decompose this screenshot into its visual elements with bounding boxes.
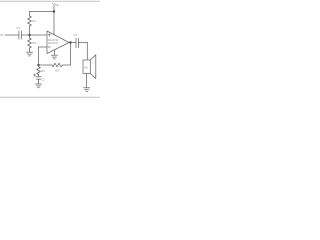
- junction feedback node: [37, 64, 39, 66]
- wire speaker bottom lead: [86, 74, 88, 88]
- node IN label: [0, 33, 3, 37]
- resistor R1: [28, 16, 32, 26]
- svg-text:IN: IN: [0, 33, 3, 37]
- svg-text:8Ω: 8Ω: [84, 65, 88, 69]
- wire output: [69, 42, 76, 44]
- resistor R4: [38, 65, 40, 67]
- ground op-amp: [53, 50, 55, 55]
- resistor R2: [29, 35, 31, 38]
- ground R2: [27, 51, 33, 53]
- wire feedback to output: [63, 64, 71, 66]
- node VCC label: [52, 1, 59, 7]
- capacitor C2: [75, 39, 77, 48]
- resistor R3 feedback: [39, 64, 53, 66]
- svg-text:R1: R1: [32, 19, 36, 23]
- ground speaker: [84, 87, 90, 89]
- ground C3: [36, 83, 42, 85]
- top rule: [0, 0, 100, 2]
- svg-text:R2: R2: [32, 41, 36, 45]
- wire C1 to op-amp: [21, 34, 47, 36]
- wire R1 top lead: [29, 12, 31, 17]
- svg-text:C2: C2: [74, 33, 78, 37]
- junction VCC node: [53, 10, 55, 12]
- wire C2 to speaker: [79, 42, 88, 44]
- svg-text:MAX9716: MAX9716: [48, 39, 59, 42]
- op-amp U1: [47, 31, 69, 54]
- wire VCC vertical: [53, 6, 55, 35]
- svg-text:R4: R4: [41, 69, 45, 73]
- wire input: [5, 34, 19, 36]
- pin +: [48, 34, 50, 36]
- wire R2 bottom lead: [29, 48, 31, 52]
- bottom rule: [0, 96, 100, 98]
- svg-text:R3: R3: [55, 69, 59, 73]
- wire inverting input: [39, 46, 48, 48]
- background: [0, 0, 100, 100]
- pin -: [48, 46, 50, 48]
- wire R1 bottom lead: [29, 26, 31, 35]
- capacitor C3: [38, 75, 40, 77]
- svg-text:C1: C1: [16, 26, 20, 30]
- svg-text:MAX9717: MAX9717: [48, 42, 59, 45]
- wire VCC-to-R1 horizontal: [30, 11, 55, 13]
- junction input node: [28, 34, 30, 36]
- svg-text:C3: C3: [41, 77, 45, 81]
- junction output node: [69, 41, 71, 43]
- wire C3 bottom lead: [38, 79, 40, 84]
- capacitor C1: [18, 31, 20, 39]
- speaker LS1: [83, 60, 90, 74]
